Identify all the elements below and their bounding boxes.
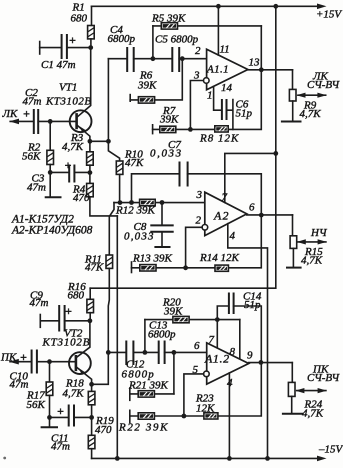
wire emitter link: [92, 352, 109, 384]
wire R5 line: [153, 25, 261, 27]
node C8 branch junction: [160, 200, 165, 205]
svg-text:5: 5: [193, 364, 199, 376]
svg-text:3: 3: [196, 189, 203, 201]
wire C4 left drop: [107, 59, 109, 142]
pin 2 bubble A2: [202, 225, 208, 231]
svg-text:6: 6: [194, 340, 200, 352]
capacitor C10: [31, 351, 33, 373]
wire R22/R23 line: [130, 362, 261, 416]
op-amp A2: [205, 192, 247, 235]
capacitor C11: [68, 406, 70, 426]
svg-text:НЧ: НЧ: [310, 227, 328, 239]
node R7/R8/pin3 junction: [188, 127, 193, 132]
wire C13 right to A1.2 pin6: [165, 351, 207, 353]
capacitor C14: [228, 294, 230, 314]
svg-text:3: 3: [193, 69, 200, 81]
wire R1 bottom to node: [90, 39, 92, 48]
svg-text:2: 2: [195, 45, 201, 57]
wire A1.1 pin11 to +15V: [217, 6, 219, 55]
node C4-line 4-way junction: [106, 139, 111, 144]
arrow -15V rail tip: [317, 456, 327, 462]
node C5/R6 junction: [180, 56, 185, 61]
svg-text:51p: 51p: [236, 108, 253, 120]
svg-text:4,7K: 4,7K: [300, 108, 322, 120]
wire VT1 emitter to C4 node: [90, 140, 109, 142]
svg-text:КТ3102В: КТ3102В: [45, 96, 92, 108]
svg-text:4,7K: 4,7K: [302, 408, 324, 420]
node R2/C3 junction: [48, 170, 53, 175]
node VT2 base / R17 junction: [47, 359, 52, 364]
wire R6 line: [130, 59, 182, 100]
svg-text:R14 12K: R14 12K: [199, 252, 239, 264]
svg-text:13: 13: [249, 57, 261, 69]
wire C14 right to A1.2 output: [234, 306, 262, 362]
wire VT1 collector: [77, 48, 90, 117]
svg-text:R5 39K: R5 39K: [151, 13, 186, 25]
node R17/C11 junction: [47, 415, 52, 420]
arrow R9 wiper into resistor: [296, 93, 305, 98]
svg-text:+: +: [65, 158, 72, 172]
svg-text:4,7K: 4,7K: [62, 141, 84, 153]
resistor R16: [87, 299, 94, 312]
node C7 branch junction: [129, 200, 134, 205]
capacitor C6: [221, 100, 223, 119]
wire A1.2 pin5 to R22/R23 node: [184, 374, 204, 416]
wire C1 left: [40, 47, 61, 49]
node R20-line/C14/pin7 junction: [215, 317, 220, 322]
wire C4-C5 mid: [134, 58, 172, 60]
svg-text:ПК: ПК: [0, 352, 17, 364]
capacitor C7: [179, 163, 181, 186]
wire -15V bottom rail: [92, 457, 318, 459]
wire R9 ground stub: [292, 101, 294, 121]
capacitor C3: [68, 166, 70, 182]
svg-text:A1.2: A1.2: [204, 352, 230, 366]
capacitor C9: [58, 306, 60, 331]
wire R1 top feed from rail: [91, 6, 93, 25]
ground bar under R2/C3: [46, 196, 61, 198]
svg-text:R13 39K: R13 39K: [132, 253, 172, 265]
resistor R3: [89, 141, 91, 152]
wire R2 bottom to C3 node: [49, 165, 51, 173]
ground bar under R17/C11: [42, 426, 57, 428]
resistor R22: [138, 413, 154, 419]
resistor R15 potentiometer: [290, 236, 297, 249]
ground tick R6 left: [129, 95, 131, 102]
wire ЛК input arrow line: [10, 120, 33, 122]
node +15V feed rail junction: [273, 4, 278, 9]
wire C1 right to node: [67, 47, 91, 49]
node R18/R19/C11 junction: [89, 415, 94, 420]
resistor R8: [215, 126, 228, 132]
wire R20 line: [145, 319, 240, 321]
wire R16 bottom to node: [89, 313, 91, 321]
wire -15V drop from R4 jog: [116, 216, 118, 459]
resistor R1: [88, 26, 95, 39]
svg-text:51p: 51p: [244, 299, 261, 311]
svg-text:КТ3102В: КТ3102В: [42, 337, 91, 349]
wire VT2 collector: [77, 321, 90, 357]
svg-text:+: +: [57, 404, 64, 418]
wire A1.2 pin8 drop: [239, 320, 241, 360]
node R3/R4/C3 junction: [88, 170, 93, 175]
wire R5 left drop: [152, 26, 154, 59]
wire R17 top: [49, 362, 51, 382]
wire C11 right: [74, 416, 92, 418]
wire R15 wiper output: [298, 241, 326, 243]
svg-text:+: +: [20, 350, 27, 364]
wire A2 output: [247, 214, 293, 216]
capacitor C2: [33, 110, 35, 133]
wire C7 right to A2 output: [188, 174, 262, 215]
svg-text:56K: 56K: [22, 151, 41, 163]
node C4/C5/R5 junction: [151, 56, 156, 61]
wire C2 to VT1 base: [38, 120, 75, 122]
wire ground stub below C3 node: [49, 172, 51, 196]
wire output down to R15: [292, 215, 294, 236]
node A2 pin7 feed junction: [273, 151, 278, 156]
wire R20 left drop: [144, 320, 146, 353]
node R1/C1/VT1-collector junction: [88, 45, 93, 50]
node A1.2 output junction: [259, 360, 264, 365]
capacitor C12: [125, 342, 127, 365]
svg-text:R12 39K: R12 39K: [115, 205, 155, 217]
wire A1.2 pin7 up: [216, 320, 218, 349]
svg-text:R21 39K: R21 39K: [128, 380, 168, 392]
arrow ПК СЧ-ВЧ output tip: [318, 388, 327, 393]
resistor R13: [140, 265, 156, 271]
node C13/R21 junction: [172, 350, 177, 355]
ground tick R7 left: [152, 125, 154, 134]
op-amp A1.1: [207, 49, 248, 90]
wire C5 right to A1.1 pin2: [179, 58, 206, 60]
svg-text:СЧ-ВЧ: СЧ-ВЧ: [307, 372, 340, 384]
wire +15V vertical feed: [90, 6, 276, 288]
svg-text:4,7K: 4,7K: [301, 255, 323, 267]
resistor R2: [47, 150, 54, 164]
node A2 output junction: [259, 213, 264, 218]
wire R24 wiper output: [297, 390, 326, 392]
transistor VT2: [69, 352, 91, 374]
svg-text:C5 6800p: C5 6800p: [155, 34, 199, 46]
svg-text:+: +: [65, 304, 72, 318]
wire C3 left: [50, 171, 68, 173]
node C12/C13/R20 junction: [143, 350, 148, 355]
ground bar C8: [155, 246, 169, 248]
wire C9 right to node: [65, 320, 90, 322]
wire R16 top corner from +15V line: [89, 288, 91, 299]
node rail R10-drop junction: [115, 456, 120, 461]
wire C14 left: [217, 306, 228, 320]
capacitor C8: [151, 224, 172, 226]
capacitor C1: [61, 35, 63, 58]
wire A1.1 pin3 drop: [190, 81, 203, 130]
svg-text:6800p: 6800p: [148, 329, 176, 341]
resistor R19: [91, 417, 93, 435]
wire C7 left branch: [132, 174, 179, 203]
svg-text:39K: 39K: [163, 306, 183, 318]
node R22/R23/pin5 junction: [182, 414, 187, 419]
wire output down to R24: [291, 363, 293, 383]
resistor R17: [46, 382, 53, 395]
svg-text:47K: 47K: [85, 262, 104, 274]
ground bar R15: [287, 267, 301, 269]
svg-text:470: 470: [95, 424, 112, 436]
svg-text:6: 6: [249, 202, 255, 214]
wire R15 ground stub: [292, 248, 294, 267]
wire A1.2 output: [249, 362, 293, 364]
op-amp A1.2: [207, 343, 249, 384]
svg-text:А2-КР140УД608: А2-КР140УД608: [11, 225, 93, 237]
wire R7/R8 feedback line: [153, 70, 262, 130]
wire R11 branch from R12-line corner: [109, 203, 114, 255]
resistor R20: [173, 316, 189, 322]
arrow ПК input tip: [9, 359, 19, 365]
svg-text:47m: 47m: [30, 297, 49, 309]
ground tick R21 left: [129, 388, 131, 400]
wire A1.1 output: [248, 69, 293, 71]
wire R10 top jog from C4-node: [108, 141, 119, 161]
wire A1.2 pin4 to -15V: [228, 373, 230, 458]
svg-text:4: 4: [230, 230, 236, 242]
resistor R9 potentiometer: [289, 89, 296, 101]
wire A2 pin2 to R13/R14 node: [186, 227, 203, 267]
wire A2 pin7 to +15V feed: [225, 153, 276, 202]
pin 3 bubble A1.1: [204, 78, 210, 84]
svg-text:12K: 12K: [196, 403, 215, 415]
arrow R24 wiper into resistor: [295, 388, 304, 393]
svg-text:1: 1: [207, 90, 213, 102]
svg-text:4: 4: [227, 377, 233, 389]
resistor R7: [160, 126, 176, 132]
wire R10 bottom: [119, 174, 121, 202]
ground tick R13 left: [131, 262, 133, 273]
wire C11 left: [50, 416, 69, 418]
svg-text:47m: 47m: [10, 379, 29, 391]
svg-text:4,7K: 4,7K: [63, 388, 85, 400]
node C12-line 4-way junction: [106, 350, 111, 355]
node VT1 base / R2 junction: [48, 119, 53, 124]
wire R2 top: [49, 121, 51, 150]
wire C8 stub: [161, 203, 163, 225]
node A1.1 output junction: [259, 67, 264, 72]
wire R5 right drop to output: [260, 26, 262, 70]
ground bar R24: [283, 413, 302, 415]
svg-text:6800p: 6800p: [108, 33, 136, 45]
resistor R21: [138, 391, 154, 397]
wire R12 summing line: [114, 202, 207, 204]
arrow R15 wiper into resistor: [297, 239, 306, 244]
arrow ЛК input tip: [9, 119, 19, 125]
resistor R23: [204, 413, 218, 419]
svg-text:+15V: +15V: [316, 9, 342, 21]
svg-text:2: 2: [196, 215, 202, 227]
svg-text:11: 11: [220, 44, 230, 56]
arrow ЛК СЧ-ВЧ output tip: [317, 93, 326, 98]
node R16/C9/VT2-collector junction: [88, 318, 93, 323]
node pin11 rail junction: [216, 4, 221, 9]
svg-text:7: 7: [222, 192, 228, 204]
wire C12 input line: [108, 351, 125, 353]
speck bottom-left scan dot: [3, 457, 6, 460]
capacitor C4: [126, 48, 128, 71]
svg-text:7: 7: [209, 334, 215, 346]
wire R24 ground stub: [291, 396, 293, 413]
svg-text:R22 39K: R22 39K: [118, 422, 169, 434]
svg-text:A2: A2: [213, 209, 230, 223]
svg-text:+: +: [23, 107, 30, 121]
resistor R14: [215, 265, 228, 271]
capacitor C5: [171, 48, 173, 71]
svg-text:9: 9: [247, 350, 253, 362]
resistor R24 potentiometer: [288, 382, 295, 396]
pin 5 bubble A1.2: [204, 371, 210, 377]
resistor R10: [116, 161, 123, 174]
ground tick R22 left: [129, 410, 131, 422]
wire R9 wiper output: [298, 94, 326, 96]
svg-text:C1 47m: C1 47m: [41, 59, 76, 71]
node rail A1.2-pin4 junction: [227, 456, 232, 461]
transistor VT1: [70, 110, 92, 132]
node VT2 emitter junction: [89, 382, 94, 387]
svg-text:8: 8: [230, 346, 236, 358]
resistor R18: [91, 384, 93, 391]
node R13/R14/pin2 junction: [183, 265, 188, 270]
ground bar R9: [282, 121, 301, 123]
wire R17 bottom to C11 node: [49, 395, 51, 417]
wire R21 drop: [173, 352, 175, 394]
wire ПК input arrow line: [10, 361, 31, 363]
wire R13/R14 line: [132, 215, 262, 268]
ground tick C1 left: [39, 42, 41, 55]
resistor R4: [89, 173, 91, 184]
svg-text:+: +: [69, 33, 76, 47]
svg-text:0,033: 0,033: [124, 231, 155, 243]
svg-text:ЛК: ЛК: [2, 108, 18, 120]
resistor R11: [106, 255, 113, 268]
svg-text:VT1: VT1: [59, 82, 77, 94]
wire A1.1 pin1 to C6: [214, 86, 222, 110]
svg-text:47m: 47m: [51, 441, 70, 453]
wire R11 bottom to C12 node: [108, 268, 109, 352]
svg-text:R8 12K: R8 12K: [199, 133, 239, 145]
svg-text:39K: 39K: [159, 114, 179, 126]
wire C3 right: [74, 171, 90, 173]
svg-text:14: 14: [221, 82, 233, 94]
svg-text:47m: 47m: [27, 182, 46, 194]
node rail A2-pin4 junction: [265, 456, 270, 461]
node VT1 emitter junction: [88, 139, 93, 144]
wire ground stub below C11 node: [49, 417, 51, 426]
svg-text:A1.1: A1.1: [206, 64, 229, 76]
svg-text:56K: 56K: [27, 399, 46, 411]
wire C10 to VT2 base: [37, 361, 75, 363]
wire C6 right to feedback line: [227, 100, 233, 130]
ground tick C9 left: [39, 315, 41, 328]
resistor R12: [140, 199, 156, 205]
resistor R5: [161, 23, 177, 29]
svg-text:–15V: –15V: [318, 444, 343, 456]
wire C8 ground stub: [161, 232, 163, 246]
wire R21 line: [130, 393, 174, 395]
svg-text:СЧ-ВЧ: СЧ-ВЧ: [307, 79, 340, 91]
svg-text:470: 470: [73, 192, 90, 204]
arrow НЧ output tip: [318, 239, 327, 244]
svg-text:0,033: 0,033: [150, 148, 183, 160]
resistor R6: [138, 97, 154, 103]
svg-text:680: 680: [71, 13, 88, 25]
svg-text:680: 680: [68, 290, 85, 302]
wire A2 pin4 to -15V: [228, 224, 268, 459]
capacitor C13: [158, 342, 160, 364]
wire output down to R9: [292, 70, 294, 90]
wire C4 left horizontal: [108, 58, 126, 60]
wire +15V top rail: [92, 5, 318, 7]
wire C12-C13 mid: [133, 351, 158, 353]
arrow +15V rail tip: [317, 4, 327, 10]
svg-text:39K: 39K: [137, 80, 157, 92]
svg-text:47K: 47K: [125, 157, 144, 169]
node R10 bottom junction: [118, 200, 123, 205]
wire C9 left: [40, 320, 58, 322]
